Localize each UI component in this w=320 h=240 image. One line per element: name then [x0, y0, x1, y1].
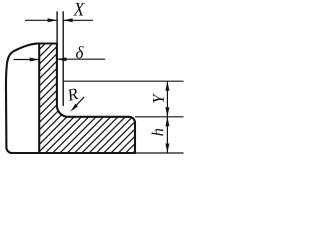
h arrows: [165, 117, 169, 127]
label h (rotated): [152, 129, 164, 136]
label Y (rotated): [153, 93, 164, 103]
hatching of section: [0, 0, 303, 165]
Y arrows: [165, 81, 169, 91]
flange top extension line: [135, 116, 184, 118]
thin extension line from wall right edge up: [56, 11, 58, 43]
delta dimension left line + arrow: [14, 59, 39, 61]
R leader line + arrow: [73, 97, 85, 110]
delta dimension right line + arrow: [57, 58, 105, 60]
X dimension left line + arrow: [25, 19, 57, 21]
thin pattern line (right of gap X): [62, 11, 64, 106]
horizontal reference line (top of Y): [63, 80, 183, 82]
label X: [73, 3, 85, 16]
wall inner (left) edge of hatched L: [38, 44, 40, 153]
bottom extension line: [135, 152, 184, 154]
casting outline (thick): wall top, right edge, fillet, flange top, corner, right, bottom, left curve: [6, 43, 135, 153]
vertical dimension line (Y and h): [166, 81, 168, 153]
X dimension right line + arrow: [63, 19, 93, 21]
label delta: [76, 46, 84, 58]
label R: [66, 88, 78, 101]
